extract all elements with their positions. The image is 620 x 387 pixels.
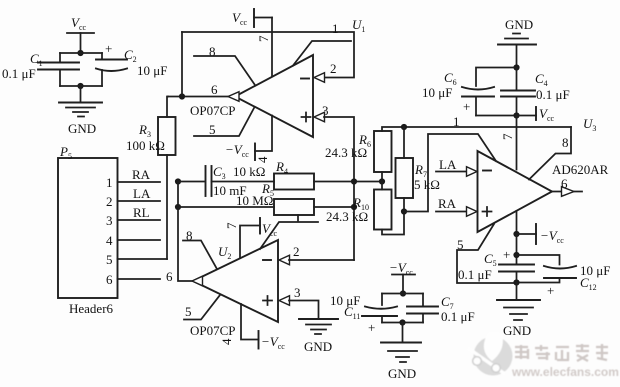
watermark logo circle (468, 332, 619, 379)
svg-text:10 μF: 10 μF (137, 63, 167, 78)
svg-text:GND: GND (304, 339, 332, 354)
svg-text:24.3 kΩ: 24.3 kΩ (325, 145, 367, 160)
wire R3 bottom to P5 pin5 (166, 155, 168, 259)
svg-text:0.1 μF: 0.1 μF (536, 87, 570, 102)
wire U1 output to feedback node (168, 96, 228, 98)
capacitor C5 0.1uF (458, 247, 534, 283)
svg-text:LA: LA (133, 186, 151, 201)
svg-text:7: 7 (256, 35, 271, 42)
wire U1 pin4 (255, 116, 272, 152)
svg-text:100 kΩ: 100 kΩ (126, 138, 165, 153)
wire U1 feedback top run to pin2 (182, 32, 354, 78)
instrumentation amp U3 AD620AR body (478, 151, 553, 232)
svg-text:RA: RA (438, 196, 457, 211)
svg-text:1: 1 (453, 114, 460, 129)
pin 4 P5 (106, 233, 160, 248)
wire C6 branch bottom (476, 115, 517, 117)
op-amp U1 minus sign pin2 (301, 78, 309, 80)
node G (vertical net at R5 row) (351, 204, 357, 210)
svg-text:6: 6 (166, 269, 173, 284)
connector P5 Header6 body (58, 158, 118, 298)
wire U2 pin7 (240, 226, 260, 259)
wire C11/C7 bottom bus (382, 322, 423, 324)
resistor R4 body (274, 174, 314, 190)
svg-text:4: 4 (255, 156, 270, 163)
power flag Vcc top-left (67, 15, 94, 53)
svg-text:5: 5 (185, 304, 192, 319)
wire U1 feedback left riser (181, 32, 183, 97)
op-amp U2 plus sign pin3 (263, 296, 272, 305)
svg-text:2: 2 (330, 61, 337, 76)
node E (integrator summing bottom) (175, 204, 181, 210)
node M (pin4/-Vcc) (513, 231, 519, 237)
output arrowhead U3 pin6 (552, 187, 582, 197)
resistor R5 body (274, 199, 314, 215)
capacitor C11 10uF polarized (330, 293, 397, 335)
svg-text:Header6: Header6 (69, 301, 114, 316)
ground GND bottom-middle (381, 343, 421, 382)
capacitor C3 10mF (206, 164, 247, 198)
wire U3 pin4 (516, 211, 518, 234)
wire bottom bus to ground (60, 86, 102, 102)
pin 8 path U3 (529, 127, 571, 180)
svg-text:+: + (463, 99, 470, 114)
pin 2 P5 (106, 194, 160, 209)
power flag -Vcc U2 pin4 (259, 331, 286, 351)
node P (top of C11/C7) (400, 290, 406, 296)
svg-text:+: + (368, 320, 375, 335)
wire node C to R3 (167, 97, 168, 118)
wire top bus C1/C2 (60, 52, 102, 54)
capacitor C6 10uF polarized (422, 70, 494, 116)
svg-text:4: 4 (219, 338, 234, 345)
output arrowhead U2 pin6 (192, 276, 203, 286)
capacitor C2 10uF polarized (96, 41, 167, 86)
svg-text:LA: LA (439, 157, 457, 172)
svg-text:7: 7 (500, 133, 515, 140)
pin 3 P5 (106, 213, 160, 228)
node J (R7/R10 bottom junction) (401, 208, 407, 214)
power flag Vcc AD620 pin7 (517, 106, 555, 123)
svg-text:GND: GND (68, 121, 96, 136)
wire to ground bottom-right (516, 283, 518, 300)
node H (net1 / R7 top) (401, 124, 407, 130)
svg-text:24.3 kΩ: 24.3 kΩ (326, 209, 368, 224)
pin 5 stub U2 (184, 295, 220, 320)
svg-text:4: 4 (106, 233, 113, 248)
node K (top of C6/C4) (513, 64, 519, 70)
svg-text:6: 6 (106, 272, 113, 287)
wire -Vcc rail down (516, 234, 518, 264)
capacitor C12 10uF polarized (517, 255, 611, 298)
input arrowhead U1 pin3 (314, 112, 325, 122)
ground GND top-left (59, 103, 102, 137)
svg-text:6: 6 (211, 82, 218, 97)
svg-text:5 kΩ: 5 kΩ (414, 177, 440, 192)
wire AD620 pin7 (516, 116, 518, 170)
resistor R6 body (374, 131, 392, 172)
wire U2 pin3 to ground (289, 301, 319, 320)
wire C11/C7 top bus (382, 293, 423, 295)
svg-text:5: 5 (106, 252, 113, 267)
op-amp U2 OP07CP body (193, 240, 278, 322)
wire C6 branch top (476, 68, 517, 87)
pin 5 path U3 (457, 224, 517, 283)
watermark text dianzifashaoyou (515, 344, 608, 361)
op-amp U1 OP07CP body (235, 55, 313, 137)
svg-text:3: 3 (294, 285, 301, 300)
svg-text:+: + (105, 41, 112, 56)
node F (vertical net at R4 row) (351, 178, 357, 184)
wire U2 output riser (178, 182, 192, 282)
ground GND U2 pin3 (299, 319, 338, 354)
wire node E to R5 (178, 206, 274, 208)
input arrowhead U2 pin3 (279, 296, 290, 306)
input arrowhead U3 plus (467, 207, 478, 217)
wire R7 bottom (403, 198, 405, 212)
svg-text:0.1 μF: 0.1 μF (2, 66, 36, 81)
power flag -Vcc U1 pin4 (225, 142, 255, 160)
wire U2 pin4 (241, 304, 259, 340)
wire net 1 top run (382, 127, 571, 131)
ground GND top-right inverted (498, 17, 536, 68)
resistor R10 body (374, 190, 392, 230)
node Q (bottom of C11/C7) (399, 319, 405, 325)
svg-text:www.elecfans.com: www.elecfans.com (511, 365, 619, 379)
resistor R7 body (396, 158, 414, 198)
svg-text:OP07CP: OP07CP (190, 103, 236, 118)
svg-text:10 MΩ: 10 MΩ (236, 193, 273, 208)
svg-text:0.1 μF: 0.1 μF (441, 309, 475, 324)
node I (R6/R10 junction) (379, 178, 385, 184)
svg-text:1: 1 (106, 175, 113, 190)
pin 8 stub U1 (194, 56, 255, 85)
wire R7 top (403, 127, 405, 158)
capacitor C4 0.1uF (501, 68, 570, 116)
svg-text:0.1 μF: 0.1 μF (458, 267, 492, 282)
svg-text:GND: GND (388, 366, 416, 381)
svg-text:3: 3 (106, 213, 113, 228)
capacitor C1 0.1uF (2, 51, 79, 86)
op-amp U1 plus sign pin3 (302, 113, 311, 122)
wire U1 pin7 (271, 18, 273, 77)
wire R4 to R6/R10 junction (314, 181, 382, 183)
wire R10 bottom jog (382, 212, 404, 235)
svg-text:GND: GND (503, 323, 531, 338)
op-amp U3 plus sign (483, 207, 492, 216)
pin 1 P5 (106, 175, 160, 190)
wire U1 pin3 down long vertical (324, 117, 354, 260)
svg-text:+: + (547, 283, 554, 298)
svg-text:+: + (503, 247, 510, 262)
wire C3 to R4 (212, 181, 275, 183)
svg-text:GND: GND (505, 17, 533, 32)
svg-text:2: 2 (293, 244, 300, 259)
wire R6 bottom (381, 172, 383, 182)
svg-text:5: 5 (209, 122, 216, 137)
svg-text:8: 8 (562, 135, 569, 150)
op-amp U3 minus sign (483, 170, 491, 172)
input arrowhead U3 minus (467, 167, 478, 177)
pin 1 stub U1 (293, 41, 351, 66)
power flag -Vcc bottom-middle (389, 260, 415, 294)
pin 5 P5 (106, 252, 167, 267)
output arrowhead U1 pin6 (228, 92, 239, 102)
wire node D to C3 (178, 181, 204, 183)
node C (U1 output/feedback) (179, 93, 185, 99)
wire node J to AD620 pin1 (404, 134, 496, 212)
resistor R3 body (158, 117, 176, 155)
svg-text:RA: RA (132, 167, 151, 182)
svg-text:OP07CP: OP07CP (190, 323, 236, 338)
power flag -Vcc U3 (517, 224, 565, 245)
wire LA stub (436, 171, 466, 173)
svg-text:1: 1 (332, 21, 339, 36)
power flag +Vcc U2 pin7 (260, 218, 278, 238)
pin 6 P5 (106, 272, 160, 287)
svg-text:7: 7 (224, 222, 239, 229)
pin 1 stub U2 (260, 222, 318, 249)
node O (bottom of C5/C12) (513, 279, 519, 285)
wire R10 top (381, 182, 383, 190)
node N (top of C5/C12) (513, 252, 519, 258)
op-amp U2 minus sign pin2 (263, 259, 271, 261)
node L (Vcc node above AD620) (513, 112, 519, 118)
wire U2 pin2 (289, 259, 354, 261)
pin 5 stub U1 (194, 108, 254, 136)
svg-text:AD620AR: AD620AR (552, 162, 609, 177)
ground GND bottom-right (497, 300, 540, 338)
svg-text:10 μF: 10 μF (422, 85, 452, 100)
wire to ground bottom-middle (402, 323, 404, 342)
power flag +Vcc U1 pin7 (232, 9, 272, 27)
svg-text:2: 2 (106, 194, 113, 209)
input arrowhead U2 pin2 (279, 255, 290, 265)
node D (integrator summing top) (175, 178, 181, 184)
pin 8 stub U2 (183, 241, 217, 270)
input arrowhead U1 pin2 (314, 73, 325, 83)
svg-text:RL: RL (133, 205, 150, 220)
capacitor C7 0.1uF (407, 294, 475, 325)
wire R5 to vertical net (314, 206, 354, 208)
node A (Vcc rail top-left) (77, 50, 83, 56)
svg-text:10 kΩ: 10 kΩ (233, 164, 265, 179)
node B (bottom of C1/C2) (77, 83, 83, 89)
wire RA stub (436, 211, 466, 213)
stub R5 bottom (297, 215, 299, 221)
